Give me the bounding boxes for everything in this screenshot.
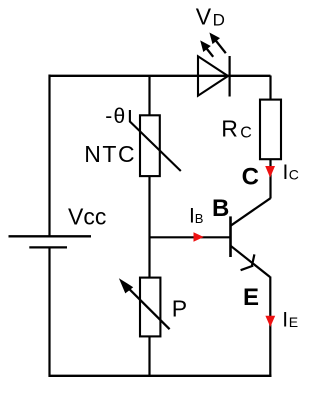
wire bottom horizontal [49,375,272,377]
battery Vcc short plate [29,246,67,248]
svg-text:B: B [212,195,229,222]
thermistor NTC diagonal with tick [130,110,181,171]
svg-text:I: I [283,161,289,184]
svg-text:D: D [213,11,225,30]
svg-text:C: C [289,167,299,183]
diode LED triangle [198,56,228,95]
svg-text:V: V [196,4,212,30]
LED emission arrow 2 shaft [214,38,226,53]
LED emission arrow 1 head [200,40,211,52]
svg-text:P: P [172,296,187,322]
svg-text:C: C [242,164,259,191]
svg-text:C: C [240,124,252,141]
svg-text:E: E [243,284,259,311]
svg-text:R: R [221,115,238,141]
current arrow IB [194,232,204,242]
potentiometer arrow shaft [127,286,170,329]
svg-text:Vcc: Vcc [68,204,106,230]
svg-text:B: B [195,211,204,226]
battery Vcc long plate [9,235,92,237]
LED emission arrow 2 head [209,33,220,45]
wire left vertical lower [48,248,50,377]
svg-text:E: E [289,314,298,330]
resistor RC body [260,100,281,160]
wire right top vertical to RC [269,76,271,101]
svg-text:I: I [282,309,288,332]
wire base (node to transistor) [150,236,230,238]
current arrow IC [265,166,275,178]
svg-text:-θ: -θ [105,105,126,128]
svg-text:NTC: NTC [84,141,136,167]
wire top horizontal [49,75,271,77]
wire emitter vertical to bottom [269,277,271,376]
potentiometer P body [140,278,160,337]
wire left vertical upper [48,75,50,237]
transistor emitter diagonal [231,246,271,277]
current arrow IE [265,316,275,327]
wire middle branch top (node to NTC) [148,76,150,117]
thermistor NTC body [140,115,160,176]
wire NTC to potentiometer [148,176,150,278]
transistor emitter arrowhead [241,254,255,270]
LED emission arrow 1 shaft [205,47,213,57]
potentiometer arrow head [119,278,133,293]
wire RC bottom to collector bend [269,159,271,199]
transistor Q1 base bar [229,216,232,257]
diode LED cathode bar [229,56,231,97]
transistor collector diagonal [231,198,271,226]
wire potentiometer to bottom [148,336,150,376]
